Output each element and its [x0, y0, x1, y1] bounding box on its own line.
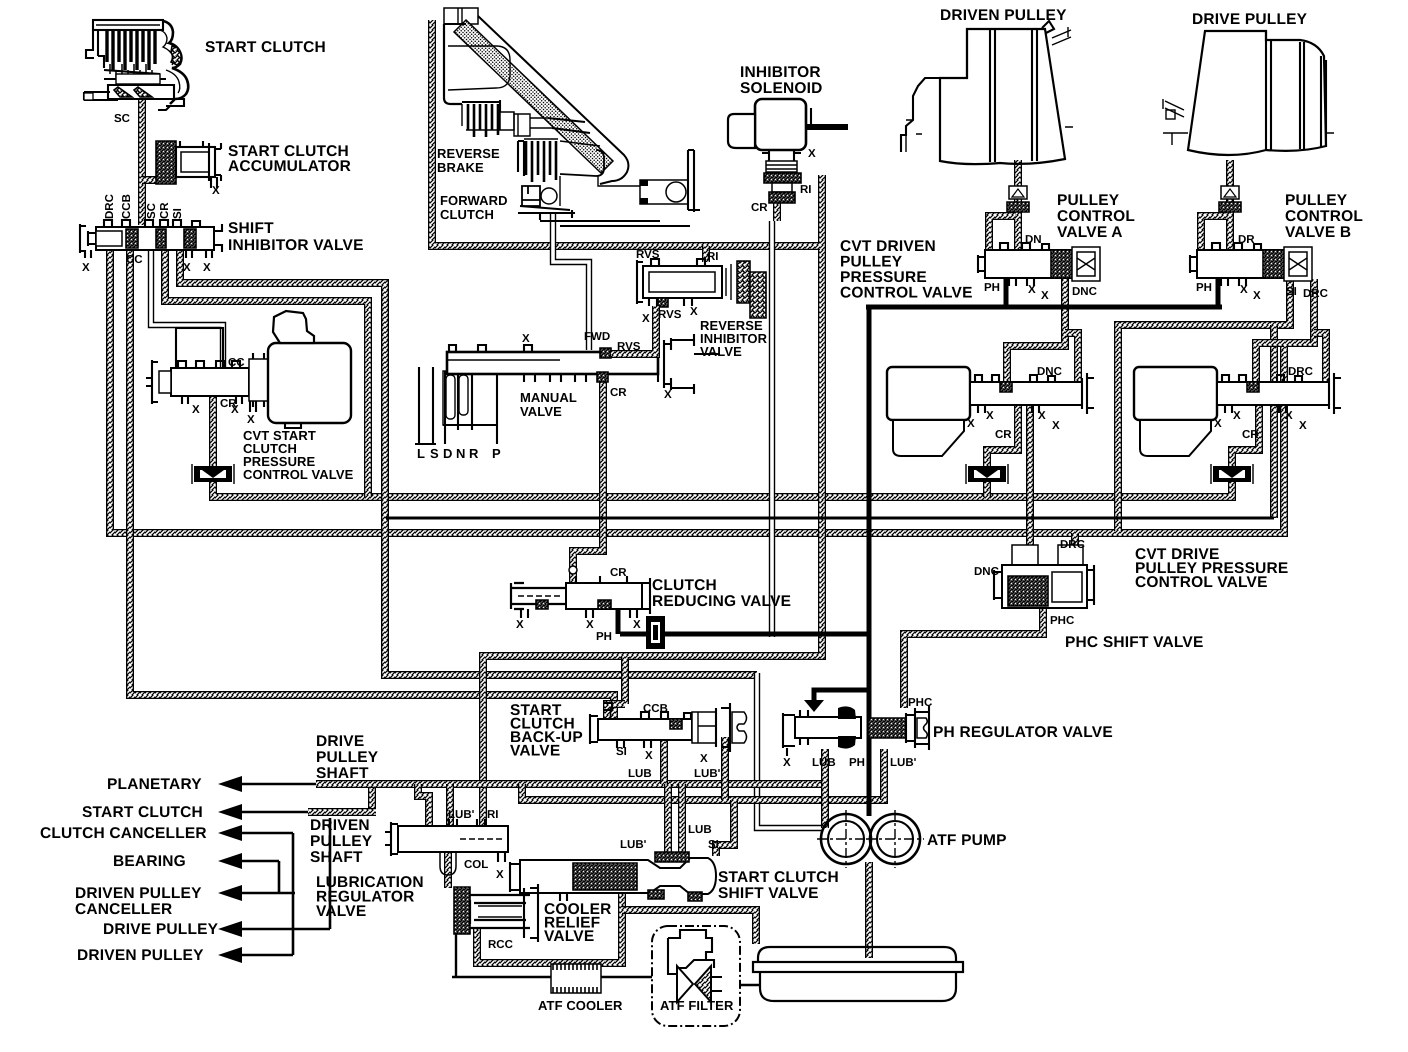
svg-text:CVT DRIVEN: CVT DRIVEN: [840, 238, 936, 255]
svg-text:RI: RI: [487, 809, 499, 821]
svg-text:SHIFT VALVE: SHIFT VALVE: [718, 885, 819, 902]
wire thick PH main vertical: [867, 309, 872, 816]
svg-text:X: X: [967, 418, 975, 430]
svg-text:PHC SHIFT VALVE: PHC SHIFT VALVE: [1065, 634, 1204, 651]
wire LUB drop of PH regulator valve: [821, 749, 829, 828]
wire canceller link 1: [292, 833, 295, 955]
svg-text:MANUAL: MANUAL: [520, 390, 577, 405]
CVT drive pulley pressure control valve: [994, 545, 1094, 608]
svg-text:S: S: [430, 446, 439, 461]
svg-text:X: X: [808, 148, 816, 160]
arrow BEARING: [218, 853, 242, 869]
svg-text:DN: DN: [1025, 234, 1042, 246]
svg-text:VALVE: VALVE: [510, 743, 560, 760]
svg-text:CR: CR: [1242, 429, 1259, 441]
arrow PLANETARY: [218, 776, 242, 792]
svg-text:X: X: [1038, 410, 1046, 422]
wire CCB riser of back-up valve: [621, 657, 629, 704]
svg-text:PH: PH: [984, 282, 1000, 294]
svg-text:RI: RI: [707, 251, 719, 263]
svg-text:SHAFT: SHAFT: [316, 765, 369, 782]
wire back-up valve enclosure right leg: [757, 673, 823, 828]
wire LUB rail 1: [316, 780, 825, 788]
svg-text:X: X: [586, 619, 594, 631]
svg-text:PH: PH: [596, 631, 612, 643]
driven pulley: [901, 21, 1073, 164]
svg-text:CONTROL VALVE: CONTROL VALVE: [1135, 574, 1268, 591]
CVT start clutch pressure control valve: [146, 311, 351, 428]
wire CC loop box: [176, 328, 223, 370]
wire COL drop to cooler relief valve: [444, 852, 452, 888]
svg-text:CC: CC: [126, 254, 143, 266]
wire PH stub valve B: [1216, 279, 1221, 308]
svg-text:DRIVEN PULLEY: DRIVEN PULLEY: [75, 885, 202, 902]
svg-text:SHIFT: SHIFT: [228, 220, 274, 237]
svg-text:PLANETARY: PLANETARY: [107, 776, 202, 793]
svg-text:START CLUTCH: START CLUTCH: [82, 804, 203, 821]
arrow START CLUTCH: [218, 804, 242, 820]
svg-text:REDUCING VALVE: REDUCING VALVE: [652, 593, 791, 610]
svg-text:X: X: [1240, 284, 1248, 296]
wire CC line to CVT start clutch pressure control valve: [151, 250, 223, 370]
wire drop to start clutch shift valve 1: [664, 784, 672, 856]
svg-text:FORWARD: FORWARD: [440, 193, 508, 208]
wire thin SI line: [386, 517, 1274, 520]
svg-text:START CLUTCH: START CLUTCH: [718, 869, 839, 886]
svg-text:CR: CR: [751, 202, 768, 214]
svg-text:PULLEY: PULLEY: [310, 833, 373, 850]
svg-text:SC: SC: [114, 113, 130, 125]
wire suction pipe from oil pan: [865, 862, 873, 958]
svg-text:CLUTCH: CLUTCH: [652, 577, 717, 594]
wire pipe from ATF filter to oil pan: [740, 984, 760, 986]
wire CR elbow of DRC solenoid valve: [1232, 405, 1259, 466]
svg-text:BEARING: BEARING: [113, 853, 186, 870]
svg-text:SI: SI: [1286, 286, 1297, 298]
svg-text:DNC: DNC: [1037, 366, 1062, 378]
svg-text:PHC: PHC: [1050, 615, 1074, 627]
start clutch shift valve: [510, 852, 716, 901]
transmission housing with reverse brake and forward clutch: [444, 8, 700, 226]
svg-text:PULLEY: PULLEY: [840, 254, 903, 271]
svg-text:LUB: LUB: [628, 768, 652, 780]
svg-text:X: X: [1028, 284, 1036, 296]
svg-text:VALVE A: VALVE A: [1057, 224, 1123, 241]
wire enclosure around cooler relief valve: [477, 890, 622, 963]
svg-text:LUB': LUB': [620, 839, 647, 851]
start clutch accumulator: [156, 141, 221, 188]
svg-text:DRC: DRC: [1288, 366, 1313, 378]
svg-text:ATF FILTER: ATF FILTER: [660, 998, 734, 1013]
wire DNC line down to CVT drive pulley pressure control valve: [1026, 405, 1034, 552]
svg-text:X: X: [1041, 290, 1049, 302]
svg-text:CLUTCH: CLUTCH: [440, 207, 494, 222]
wire DRC jog into DRC solenoid valve: [1256, 343, 1284, 382]
wire driven pulley stem: [1014, 160, 1022, 250]
ATF pump: [817, 810, 924, 868]
wire PH stub valve A: [1004, 279, 1009, 308]
svg-text:CR: CR: [995, 429, 1012, 441]
wire RI route from inhibitor solenoid to lubrication regulator valve: [483, 175, 822, 826]
wire loop at pulley control valve A: [989, 216, 1015, 250]
svg-text:SI: SI: [616, 746, 627, 758]
wire LUB' drop of PH regulator valve: [880, 749, 888, 800]
svg-text:DRC: DRC: [1060, 539, 1085, 551]
svg-text:X: X: [783, 757, 791, 769]
shift inhibitor valve: [80, 220, 222, 258]
wire CR rail H1: [213, 481, 1232, 497]
svg-text:PHC: PHC: [908, 697, 932, 709]
wire SI jog to start clutch shift valve: [716, 800, 734, 856]
svg-text:REVERSE: REVERSE: [437, 146, 500, 161]
wire DRC rail from shift inhibitor valve along H2 up to pulley control valve B: [110, 250, 1314, 533]
CVT driven pulley solenoid valve DNC: [887, 367, 1094, 456]
svg-text:PULLEY: PULLEY: [1057, 192, 1120, 209]
svg-text:X: X: [516, 619, 524, 631]
svg-text:INHIBITOR VALVE: INHIBITOR VALVE: [228, 237, 364, 254]
svg-text:LUB': LUB': [448, 809, 475, 821]
svg-text:X: X: [1052, 420, 1060, 432]
wire DNC port riser: [1065, 333, 1078, 382]
wire CR stub from inhibitor solenoid: [773, 203, 781, 221]
ATF filter: [652, 926, 740, 1026]
svg-text:RCC: RCC: [488, 939, 513, 951]
wire DRC drop stub: [1310, 279, 1318, 343]
wire SI drop from pulley control valve B: [1118, 279, 1290, 531]
svg-text:DNC: DNC: [1072, 286, 1097, 298]
fitting on driven pulley stem: [1007, 186, 1029, 212]
wire CCB route from shift inhibitor valve to back-up valve: [130, 250, 614, 728]
svg-text:DRIVE: DRIVE: [316, 733, 364, 750]
svg-text:SI: SI: [708, 839, 719, 851]
svg-text:VALVE: VALVE: [544, 928, 594, 945]
svg-text:CR: CR: [159, 202, 171, 219]
wire LUB' drop to lubrication regulator valve: [446, 784, 454, 826]
arrow DRIVE PULLEY: [218, 921, 242, 937]
svg-text:LUB: LUB: [812, 757, 836, 769]
CVT drive pulley solenoid valve DRC: [1134, 367, 1341, 456]
svg-text:LUB': LUB': [890, 757, 917, 769]
wire housing enclosure border: [432, 20, 820, 246]
svg-text:ATF PUMP: ATF PUMP: [927, 832, 1007, 849]
wire CR stem of CVT start clutch pressure control valve: [209, 396, 217, 466]
wire RVS link from reverse inhibitor valve to manual valve: [611, 306, 656, 354]
svg-text:X: X: [247, 414, 255, 426]
svg-text:VALVE: VALVE: [316, 903, 366, 920]
wire pipe from ATF cooler to ATF filter: [601, 976, 652, 978]
wire thick PH line between pulley control valves: [866, 305, 1222, 310]
svg-text:X: X: [496, 869, 504, 881]
fitting on PH line: [646, 616, 665, 649]
wire CR elbow of DNC solenoid valve: [987, 405, 1018, 466]
arrow CLUTCH CANCELLER: [218, 825, 242, 841]
wire drive pulley link: [329, 818, 332, 929]
svg-text:BRAKE: BRAKE: [437, 160, 484, 175]
reverse inhibitor valve: [637, 259, 766, 318]
svg-text:X: X: [633, 619, 641, 631]
svg-text:DR: DR: [1238, 234, 1255, 246]
manual valve: [415, 334, 720, 444]
wire CR branch from shift inhibitor valve to H1: [165, 250, 368, 497]
svg-text:X: X: [522, 333, 530, 345]
wire drive pulley stem: [1226, 160, 1234, 250]
svg-text:ACCUMULATOR: ACCUMULATOR: [228, 158, 351, 175]
wire drive pulley shaft bar: [316, 780, 378, 788]
svg-text:CLUTCH CANCELLER: CLUTCH CANCELLER: [40, 825, 207, 842]
wire LUB rail 2 to PH regulator LUB' port: [522, 749, 884, 800]
svg-text:CONTROL VALVE: CONTROL VALVE: [243, 467, 354, 482]
fitting on DRC CR line: [1211, 464, 1253, 484]
svg-text:DRIVEN PULLEY: DRIVEN PULLEY: [77, 947, 204, 964]
svg-text:DRC: DRC: [104, 194, 116, 219]
wire DNC drop from pulley control valve A: [1007, 279, 1065, 382]
wire stub to start clutch accumulator: [142, 176, 157, 184]
svg-text:X: X: [1285, 410, 1293, 422]
wire RI branch to reverse inhibitor valve: [702, 246, 710, 262]
fitting on CVT start clutch CR line: [192, 464, 234, 484]
wire canceller link 2: [278, 861, 281, 893]
svg-text:RI: RI: [800, 184, 812, 196]
wire drop to driven pulley shaft bar: [368, 784, 376, 808]
wire driven pulley shaft bar: [308, 808, 376, 816]
svg-text:DRIVEN: DRIVEN: [310, 817, 370, 834]
svg-text:X: X: [1233, 410, 1241, 422]
wire LUB' drop of back-up valve: [721, 737, 729, 800]
ATF cooler: [551, 964, 601, 993]
svg-text:X: X: [1299, 420, 1307, 432]
fitting on DNC CR line: [966, 464, 1008, 484]
wire DRC riser of CVT drive pulley pressure control valve: [1071, 533, 1079, 552]
svg-text:PH: PH: [1196, 282, 1212, 294]
svg-text:X: X: [212, 185, 220, 197]
svg-text:X: X: [986, 410, 994, 422]
svg-text:CONTROL: CONTROL: [1057, 208, 1135, 225]
svg-text:X: X: [664, 389, 672, 401]
svg-text:RVS: RVS: [617, 341, 641, 353]
svg-text:X: X: [203, 262, 211, 274]
fitting on drive pulley stem: [1219, 186, 1241, 212]
svg-text:R: R: [469, 446, 479, 461]
wire drop to start clutch shift valve 2: [678, 784, 686, 856]
svg-text:DRIVEN PULLEY: DRIVEN PULLEY: [940, 7, 1067, 24]
wire SC line from start clutch: [138, 98, 146, 225]
svg-text:D: D: [443, 446, 453, 461]
svg-text:DRIVE PULLEY: DRIVE PULLEY: [103, 921, 219, 938]
svg-text:CCB: CCB: [121, 194, 133, 219]
pulley control valve B: [1190, 243, 1312, 286]
clutch reducing valve: [511, 566, 650, 618]
svg-text:CONTROL VALVE: CONTROL VALVE: [840, 285, 973, 302]
svg-text:X: X: [183, 262, 191, 274]
wire pipe to ATF cooler: [452, 934, 551, 977]
wire thick PH jumper over PH regulator valve: [814, 690, 868, 701]
PH regulator valve: [783, 700, 929, 756]
svg-text:START CLUTCH: START CLUTCH: [205, 39, 326, 56]
svg-text:DRIVE PULLEY: DRIVE PULLEY: [1192, 11, 1308, 28]
start clutch assembly: [84, 20, 188, 110]
svg-text:SOLENOID: SOLENOID: [740, 80, 823, 97]
svg-text:DNC: DNC: [974, 566, 999, 578]
svg-text:RVS: RVS: [658, 309, 682, 321]
svg-text:PH REGULATOR VALVE: PH REGULATOR VALVE: [933, 724, 1113, 741]
wire loop at pulley control valve B: [1201, 216, 1227, 250]
svg-text:X: X: [700, 753, 708, 765]
svg-text:ATF COOLER: ATF COOLER: [538, 998, 623, 1013]
pulley control valve A: [978, 243, 1100, 286]
svg-text:FWD: FWD: [584, 331, 610, 343]
wire FWD line from forward clutch to manual valve: [553, 212, 589, 350]
svg-text:VALVE: VALVE: [700, 344, 742, 359]
arrow DRIVEN PULLEY: [218, 947, 242, 963]
wire SI route and back-up valve enclosure top: [180, 250, 757, 675]
drive pulley: [1163, 31, 1334, 155]
wire DRC port riser: [1314, 333, 1326, 382]
wire CR stem of DNC solenoid valve: [983, 481, 991, 497]
svg-text:X: X: [642, 313, 650, 325]
svg-text:SI: SI: [172, 208, 184, 219]
svg-text:X: X: [645, 750, 653, 762]
lubrication regulator valve: [385, 819, 508, 875]
svg-text:SC: SC: [146, 203, 158, 219]
svg-text:PULLEY: PULLEY: [316, 749, 379, 766]
svg-text:SHAFT: SHAFT: [310, 849, 363, 866]
svg-text:X: X: [1214, 418, 1222, 430]
svg-text:CANCELLER: CANCELLER: [75, 901, 172, 918]
wire drop to lubrication regulator valve plunger: [418, 784, 429, 826]
svg-text:RVS: RVS: [636, 249, 660, 261]
svg-text:X: X: [1253, 290, 1261, 302]
svg-text:CR: CR: [220, 398, 237, 410]
svg-text:CR: CR: [610, 387, 627, 399]
svg-text:N: N: [456, 446, 466, 461]
svg-text:VALVE: VALVE: [520, 404, 562, 419]
svg-text:P: P: [492, 446, 501, 461]
arrow DRIVEN PULLEY CANCELLER: [218, 885, 242, 901]
wire SI branch to thin SI line: [1270, 325, 1278, 518]
wire thick PH line from clutch reducing valve: [618, 607, 868, 634]
svg-text:X: X: [690, 306, 698, 318]
svg-text:PULLEY: PULLEY: [1285, 192, 1348, 209]
wire PHC line to PH regulator valve: [904, 608, 1043, 708]
start clutch back-up valve: [590, 703, 747, 752]
wire pipe from cooler relief valve to oil pan: [622, 910, 756, 944]
wire CR line from inhibitor solenooid down to PH line: [769, 221, 775, 637]
svg-text:X: X: [192, 404, 200, 416]
svg-text:CR: CR: [610, 567, 627, 579]
inhibitor solenoid: [728, 99, 848, 203]
svg-text:X: X: [82, 262, 90, 274]
wire LUB drop of back-up valve: [660, 737, 668, 784]
svg-text:VALVE B: VALVE B: [1285, 224, 1351, 241]
svg-text:PRESSURE: PRESSURE: [840, 269, 927, 286]
svg-text:DRC: DRC: [1303, 288, 1328, 300]
cooler relief valve: [454, 884, 538, 942]
svg-text:L: L: [417, 446, 425, 461]
wire CCB loop: [607, 704, 625, 719]
svg-text:CONTROL: CONTROL: [1285, 208, 1363, 225]
oil pan: [753, 947, 963, 1001]
svg-text:INHIBITOR: INHIBITOR: [740, 64, 821, 81]
svg-text:COL: COL: [464, 859, 488, 871]
svg-text:LUB: LUB: [688, 824, 712, 836]
svg-text:CC: CC: [228, 357, 245, 369]
svg-text:LUB': LUB': [694, 768, 721, 780]
svg-text:PH: PH: [849, 757, 865, 769]
wire CR drop from manual valve to clutch reducing valve: [573, 378, 603, 583]
svg-text:CCB: CCB: [643, 703, 668, 715]
